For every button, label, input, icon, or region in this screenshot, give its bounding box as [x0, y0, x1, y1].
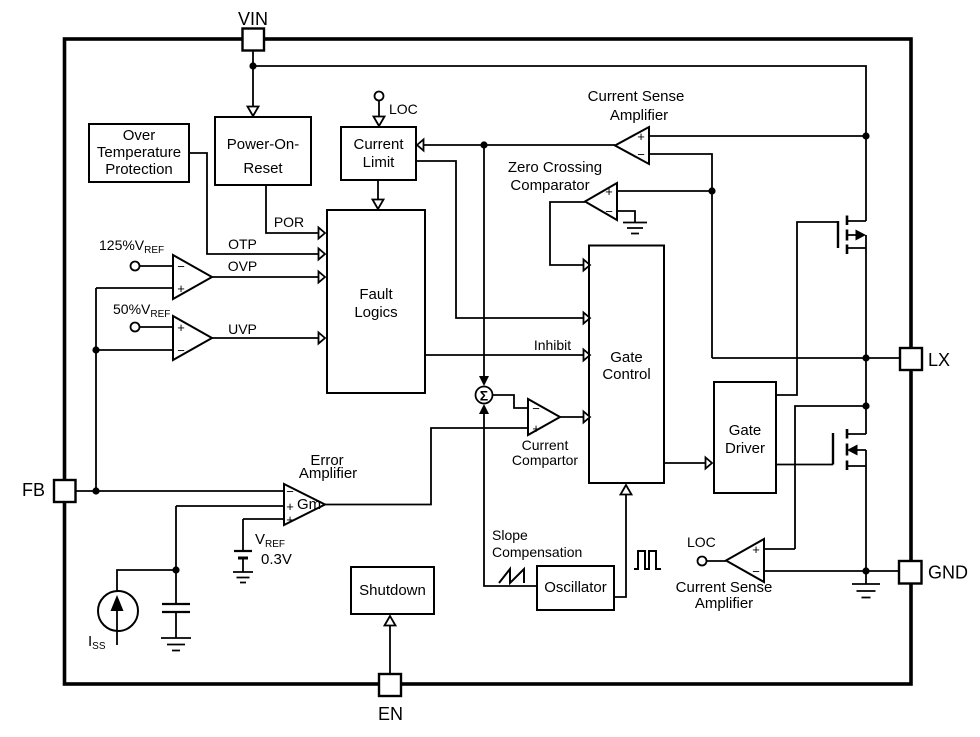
wire switch node vertical [865, 248, 867, 406]
wire OTP output to Fault Logics [189, 153, 318, 254]
block Oscillator [537, 566, 614, 610]
wire OVP output to Fault Logics [212, 276, 318, 278]
svg-text:−: − [177, 343, 185, 358]
wire CSA2 - input GND rail [764, 570, 899, 572]
svg-text:Inhibit: Inhibit [534, 337, 571, 353]
node UVP junction [92, 346, 99, 353]
wire soft-start to error amp + [176, 506, 284, 570]
svg-text:+: + [605, 184, 613, 199]
node LOC bottom input [698, 557, 707, 566]
svg-text:Compensation: Compensation [492, 544, 582, 560]
svg-text:GND: GND [928, 563, 968, 583]
svg-text:+: + [177, 320, 185, 335]
wire Inhibit Fault Logics to Gate Control [425, 354, 583, 356]
svg-text:LOC: LOC [687, 534, 716, 550]
wire current sense amp to Current Limit input [423, 144, 615, 146]
svg-text:Protection: Protection [105, 161, 173, 178]
node soft-start junction [172, 566, 179, 573]
svg-text:Current Sense: Current Sense [676, 579, 773, 596]
svg-text:Limit: Limit [363, 154, 396, 171]
block Current Limit [341, 127, 416, 180]
node 50%VREF input [131, 323, 140, 332]
pin VIN [243, 29, 265, 51]
svg-text:+: + [752, 542, 760, 557]
wire low-side source to GND [865, 466, 867, 571]
svg-text:−: − [177, 259, 185, 274]
svg-text:Oscillator: Oscillator [544, 579, 607, 596]
node LX junction [862, 354, 869, 361]
wire POR output to Fault Logics [266, 185, 318, 233]
transistor Q2 low-side NMOS [832, 433, 834, 465]
svg-text:OVP: OVP [228, 258, 258, 274]
op-amp OVP comparator [173, 255, 212, 299]
svg-text:−: − [752, 564, 760, 579]
wire LOC to Current Limit [378, 101, 380, 121]
wire Gate Driver to high-side gate [776, 222, 838, 395]
svg-text:LOC: LOC [389, 101, 418, 117]
svg-text:−: − [532, 401, 540, 416]
svg-text:Σ: Σ [480, 388, 488, 404]
ground ZC - input [617, 211, 635, 222]
svg-text:Compartor: Compartor [512, 452, 578, 468]
wire EN to Shutdown [389, 622, 391, 674]
wire Gate Driver to low-side gate [776, 464, 833, 466]
wire 125%VREF to OVP comparator [140, 265, 174, 267]
block Gate Driver [714, 382, 776, 493]
svg-text:Current: Current [522, 437, 569, 453]
pin EN [379, 674, 401, 696]
op-amp Error Amplifier Gm [284, 484, 325, 525]
node current limit tap [480, 141, 487, 148]
wire Gate Control to Gate Driver [664, 462, 706, 464]
wire CSA top + input [649, 135, 866, 137]
block Fault Logics [327, 210, 425, 393]
wire VREF to error amp + [243, 519, 284, 551]
wire low-side drain sense to CSA2 [764, 406, 866, 549]
svg-text:Amplifier: Amplifier [695, 595, 753, 612]
wire LX rail [712, 357, 900, 359]
reference VREF 0.3V battery [234, 550, 252, 552]
wire FB sense vertical [96, 288, 173, 491]
svg-text:POR: POR [274, 214, 304, 230]
summing node sigma [476, 387, 493, 404]
wire ZC output to Gate Control [550, 202, 585, 265]
node CSA + tap [862, 132, 869, 139]
svg-text:Shutdown: Shutdown [359, 582, 426, 599]
wire slope comp into sigma [479, 404, 489, 414]
wire summing node input vertical [483, 145, 485, 377]
svg-text:0.3V: 0.3V [261, 551, 292, 568]
svg-text:−: − [605, 204, 613, 219]
svg-text:Current Sense: Current Sense [588, 88, 685, 105]
block Gate Control [589, 246, 664, 484]
op-amp Current Sense Amplifier top [615, 127, 649, 164]
block Power-On-Reset [215, 117, 311, 185]
wire LOC to CSA2 [707, 560, 727, 562]
svg-text:Over: Over [123, 127, 156, 144]
icon clock pulses [634, 551, 661, 569]
svg-text:Slope: Slope [492, 527, 528, 543]
node low-side drain junction [862, 402, 869, 409]
block Over Temperature Protection [89, 124, 189, 182]
block Shutdown [351, 567, 434, 614]
svg-text:−: − [286, 484, 294, 499]
svg-text:Logics: Logics [354, 304, 397, 321]
svg-text:OTP: OTP [228, 236, 257, 252]
capacitor soft-start [175, 570, 177, 604]
wire Oscillator to Gate Control [614, 492, 626, 597]
svg-text:LX: LX [928, 350, 950, 370]
IC boundary border [65, 39, 912, 684]
ground GND symbol [865, 571, 867, 584]
svg-text:Fault: Fault [359, 286, 393, 303]
op-amp UVP comparator [173, 316, 212, 360]
svg-text:+: + [177, 281, 185, 296]
transistor Q1 high-side NMOS [837, 221, 839, 248]
svg-text:Gate: Gate [610, 349, 643, 366]
wire sigma to current comparator [493, 395, 528, 408]
wire CSA top - input to LX [649, 154, 712, 358]
wire error amp output to comparator + [325, 428, 527, 505]
op-amp Current Comparator [528, 399, 560, 435]
svg-text:Amplifier: Amplifier [299, 465, 357, 482]
node VIN junction [249, 62, 256, 69]
wire UVP output to Fault Logics [212, 337, 318, 339]
node LOC top [375, 92, 384, 101]
svg-text:Gm: Gm [297, 496, 321, 513]
ground VREF [233, 572, 253, 583]
node GND junction [862, 567, 869, 574]
wire comparator output to Gate Control [560, 416, 583, 418]
icon sawtooth [499, 569, 524, 583]
wire VIN to Power-On-Reset [252, 66, 254, 110]
svg-text:−: − [637, 147, 645, 162]
svg-text:Comparator: Comparator [510, 177, 589, 194]
svg-text:Gate: Gate [729, 422, 762, 439]
svg-text:EN: EN [378, 704, 403, 724]
node 125%VREF input [131, 262, 140, 271]
svg-text:Driver: Driver [725, 440, 765, 457]
svg-text:VIN: VIN [238, 9, 268, 29]
pin FB [75, 490, 284, 492]
svg-text:Control: Control [602, 366, 650, 383]
svg-text:+: + [532, 421, 540, 436]
svg-text:UVP: UVP [228, 321, 257, 337]
svg-text:+: + [637, 129, 645, 144]
svg-text:Power-On-: Power-On- [227, 136, 300, 153]
wire 50%VREF to UVP comparator [140, 326, 174, 328]
svg-text:Current: Current [353, 136, 404, 153]
pin LX [900, 348, 922, 370]
wire VIN rail to high-side drain [253, 51, 866, 221]
pin GND [899, 561, 922, 584]
svg-text:Zero Crossing: Zero Crossing [508, 159, 602, 176]
current source ISS [98, 591, 138, 631]
svg-text:Amplifier: Amplifier [610, 107, 668, 124]
ground capacitor [161, 638, 191, 651]
wire Current Limit to Gate Control [416, 161, 583, 318]
svg-text:FB: FB [22, 480, 45, 500]
svg-text:Temperature: Temperature [97, 144, 181, 161]
op-amp Current Sense Amplifier bottom [726, 539, 764, 582]
wire ZC + input [617, 190, 712, 192]
svg-text:Reset: Reset [243, 160, 283, 177]
node ZC tap [708, 187, 715, 194]
op-amp Zero Crossing Comparator [585, 183, 617, 220]
wire Current Limit to Fault Logics [377, 180, 379, 203]
svg-text:+: + [286, 512, 294, 527]
